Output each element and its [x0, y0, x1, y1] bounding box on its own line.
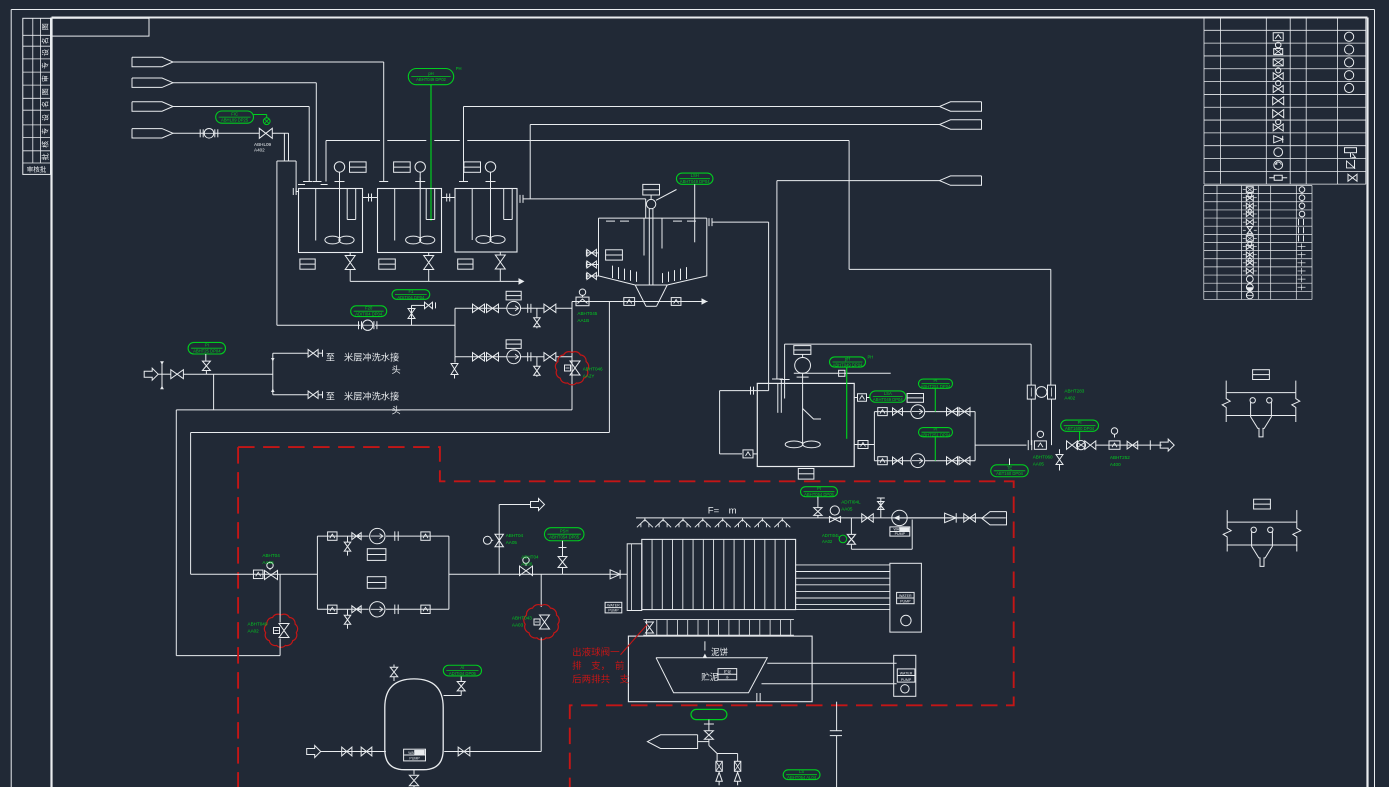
flange tick agitator [797, 376, 809, 378]
valve ABHL09 (FIC control valve) [259, 128, 272, 138]
flow indicator FI wash [363, 320, 373, 330]
svg-text:PUMP: PUMP [608, 609, 619, 613]
filter press plate stack [642, 539, 796, 609]
svg-text:ADITI04 DP04: ADITI04 DP04 [397, 295, 425, 300]
clarifier drive circle [646, 199, 655, 208]
drain valve tank T1 [349, 253, 351, 256]
wire dosing outlet [444, 751, 541, 753]
instrument pill (empty) [691, 709, 727, 719]
instrument pill PI transfer 2 [919, 428, 953, 437]
svg-text:TE: TE [1007, 465, 1013, 470]
signal wire PI 1 (green) [934, 388, 936, 411]
legend table 1 valve symbols column [1273, 33, 1283, 41]
svg-text:ADITI04 DP05: ADITI04 DP05 [449, 671, 477, 676]
drain valve below manifold [454, 357, 456, 363]
valve dosing feed 2 [361, 747, 372, 756]
title block strip (left edge) [23, 18, 51, 174]
signal stub TE [1009, 459, 1011, 465]
svg-text:ABHL09: ABHL09 [254, 142, 272, 147]
valve in cloud C3 [534, 619, 540, 625]
wire reaction tank outlet [854, 444, 874, 446]
clarifier sample valve 3 [586, 275, 598, 277]
box fitting below T1 [300, 259, 315, 269]
crossing line with arrows [161, 363, 163, 387]
mixing tank T1 with agitator M1 [299, 189, 363, 253]
vent valve assembly [411, 305, 413, 325]
svg-text:A402: A402 [1064, 396, 1075, 401]
fitting with circle on discharge [1037, 431, 1043, 437]
relief valve 1 [716, 761, 722, 771]
instrument pill TE [991, 465, 1029, 477]
valve wash branch upper [308, 349, 318, 357]
wire into tank T1 left wall [295, 161, 297, 192]
valve actuator circle (green) [263, 118, 270, 125]
valve in cloud C1 [565, 365, 571, 371]
wire spray header [636, 517, 1006, 519]
svg-text:贮泥: 贮泥 [701, 672, 719, 682]
svg-text:PI: PI [1078, 420, 1082, 425]
flange tick discharge [1027, 440, 1029, 450]
svg-text:F1: F1 [408, 289, 414, 294]
revision cloud C2 [264, 614, 297, 647]
svg-text:ABHT049 DP04: ABHT049 DP04 [873, 397, 903, 402]
inlet flag 1 [132, 57, 173, 66]
valve w/ actuator discharge [523, 557, 529, 563]
box fitting tank outlet [858, 441, 868, 449]
svg-text:图: 图 [42, 23, 50, 30]
box fitting mid 1 [367, 549, 386, 561]
wire [214, 132, 259, 134]
red diagonal leader [621, 624, 648, 655]
sludge pump branch 2 [317, 608, 368, 610]
wire wash branch upper [273, 352, 308, 354]
svg-text:图: 图 [42, 88, 50, 95]
legend table 2 symbol column [1243, 189, 1246, 191]
svg-text:pH: pH [428, 71, 433, 76]
instrument pill F20 [351, 306, 387, 317]
wire wash branch lower [273, 394, 308, 396]
wire dosing feed [321, 751, 386, 753]
svg-text:AA1B: AA1B [577, 318, 589, 323]
instrument pill pH reaction [830, 357, 866, 367]
svg-text:ABHT054 AL04: ABHT054 AL04 [787, 775, 817, 780]
clarifier hopper [635, 285, 646, 306]
wire clarifier effluent [708, 218, 710, 226]
svg-text:F20: F20 [365, 306, 373, 311]
clarifier drive diagonal [656, 190, 677, 201]
wire inlet line 1 [173, 61, 384, 63]
svg-text:专: 专 [41, 62, 50, 69]
wire outlet line B [530, 124, 939, 126]
junction wash branch 1 [571, 307, 573, 309]
wire drop to recycle line [213, 374, 215, 410]
wire hopper to unit2 lower [762, 683, 897, 685]
clarifier feedwell [643, 218, 645, 255]
svg-text:ABHT060: ABHT060 [1033, 455, 1053, 460]
svg-text:AA05: AA05 [506, 540, 518, 545]
svg-text:PI: PI [205, 343, 209, 348]
svg-text:AA02: AA02 [822, 539, 833, 544]
svg-text:ABHL09 DP25: ABHL09 DP25 [221, 117, 249, 122]
filter press label box left [605, 602, 622, 613]
sheet outer border frame [11, 9, 1374, 11]
drain valve below discharge [1059, 449, 1061, 453]
sludge skid right header [448, 536, 450, 609]
inlet arrow dosing [307, 746, 321, 758]
svg-text:AA05: AA05 [262, 560, 274, 565]
filter press frame rails [796, 564, 890, 566]
valve wash branch lower [308, 391, 318, 399]
svg-text:AA2Y: AA2Y [583, 374, 595, 379]
box fitting with circle 2 [1111, 428, 1117, 434]
outlet flag C [940, 176, 982, 185]
inlet flag wash water [144, 368, 158, 380]
drain valve below pill [704, 731, 713, 740]
svg-text:ABHT045: ABHT045 [577, 311, 597, 316]
svg-text:LS: LS [799, 769, 804, 774]
wire dosing split header [277, 160, 296, 162]
wire dosing riser lower [540, 638, 542, 752]
wire line C (dosing header) [326, 140, 380, 142]
wire inlet line 2 [173, 82, 316, 84]
left discharge arrow flag [647, 735, 697, 749]
clarifier basin [599, 218, 636, 285]
svg-text:LSA: LSA [884, 391, 892, 396]
svg-text:ABHT252: ABHT252 [1110, 455, 1130, 460]
wire dosing drop into reaction tank [784, 344, 786, 398]
signal wire FIC to valve (green) [254, 114, 267, 116]
wash water pump [892, 510, 907, 525]
dosing tank label box [404, 749, 426, 761]
svg-text:设: 设 [41, 49, 50, 56]
svg-text:pH: pH [845, 357, 850, 362]
wire line C drop to east manifold [848, 141, 850, 270]
wire underflow riser down [571, 302, 573, 410]
wire wash manifold [454, 308, 456, 357]
valve below pill [205, 354, 207, 361]
transfer pump branch 2 [874, 460, 911, 462]
instrument pill LSA [870, 391, 906, 402]
svg-text:AA06: AA06 [521, 562, 533, 567]
wire T3 outlet to clarifier feed [519, 195, 521, 203]
svg-text:AA03: AA03 [512, 623, 524, 628]
bypass valve [847, 534, 855, 544]
wire [158, 373, 171, 375]
svg-text:ABHT25 DP04: ABHT25 DP04 [193, 349, 221, 354]
arrow drain header [519, 278, 525, 285]
filter press end plate [627, 544, 642, 611]
wire outlet line to reaction tank [777, 180, 940, 182]
svg-text:头: 头 [392, 406, 401, 416]
instrument pill PI transfer 1 [919, 379, 953, 388]
sludge pump branch 1 [317, 535, 368, 537]
revision cloud C3 [524, 605, 559, 640]
arrow vent outlet [531, 499, 545, 511]
legend table 1 grid [1204, 17, 1366, 19]
wire vent riser [498, 505, 500, 575]
svg-text:ABHT046: ABHT046 [583, 367, 603, 372]
clarifier rake teeth [612, 266, 614, 278]
svg-text:AA05: AA05 [1033, 462, 1045, 467]
svg-text:ADITI04L: ADITI04L [841, 499, 861, 504]
vent stub spray [880, 498, 882, 518]
svg-text:PSH: PSH [560, 529, 569, 534]
outlet flag B [940, 120, 982, 129]
overflow connector T2-T3 [442, 197, 456, 199]
spray control valve [829, 517, 840, 523]
spray nozzles [637, 518, 653, 527]
instrument pill AI dosing [443, 665, 481, 676]
clarifier sample valve 2 [586, 264, 598, 266]
svg-text:LSH: LSH [691, 173, 699, 178]
wire below pill [708, 720, 710, 731]
svg-text:批: 批 [41, 153, 50, 160]
underflow valve w/ actuator [579, 289, 585, 295]
wire inlet line 4 to flow element [173, 132, 204, 134]
wire outlet line A [464, 106, 940, 108]
svg-text:头: 头 [392, 365, 401, 375]
rotameter right [1048, 385, 1056, 399]
wire after pump [907, 517, 985, 519]
svg-text:AA05: AA05 [841, 506, 853, 511]
wash water pump label [890, 527, 910, 536]
wire LSA tap [854, 397, 857, 399]
hex connector flag [982, 512, 1007, 525]
svg-text:ABT1600 DP04: ABT1600 DP04 [1065, 426, 1095, 431]
svg-text:PH: PH [868, 354, 874, 359]
red dashed boundary (skid limit) [238, 447, 1014, 787]
drain valve tank T3 [499, 252, 501, 255]
inlet flag 2 [132, 78, 173, 87]
svg-text:泥饼: 泥饼 [711, 647, 729, 657]
rotameter circle [1036, 387, 1047, 398]
svg-text:WATER: WATER [899, 594, 912, 598]
relief valve 2 [734, 761, 740, 771]
box fitting right of LSA [907, 394, 923, 403]
svg-text:PUMP: PUMP [895, 532, 906, 536]
svg-text:核: 核 [41, 141, 50, 148]
valve wash inlet [171, 370, 184, 379]
instrument pill PI discharge [1061, 420, 1099, 431]
signal wire LSH (white) [694, 184, 696, 242]
control valve station [1067, 441, 1078, 450]
svg-text:斗: 斗 [726, 675, 730, 680]
svg-text:ABT160 DP04: ABT160 DP04 [996, 471, 1023, 476]
mixing tank T2 with agitator M2 [378, 189, 442, 253]
box fitting underflow right [671, 298, 681, 306]
drain funnel 2 [1254, 499, 1271, 509]
wire [183, 373, 272, 375]
svg-text:至 米层冲洗水接: 至 米层冲洗水接 [326, 352, 400, 363]
svg-text:ABHT043: ABHT043 [512, 616, 532, 621]
unit2 label [897, 669, 915, 682]
svg-text:WATER: WATER [900, 672, 913, 676]
spray block valve [862, 514, 874, 522]
sludge hopper box [628, 636, 812, 702]
instrument pill LS bottom [783, 770, 820, 780]
clarifier water level ticks [606, 220, 615, 222]
bypass instrument circle (green) [839, 535, 847, 543]
box fitting below reaction tank [798, 469, 814, 480]
flange tick tank T3 top [459, 181, 468, 183]
box fitting suction [253, 570, 263, 579]
svg-text:贮泥: 贮泥 [724, 669, 732, 674]
svg-text:F= m: F= m [708, 506, 737, 517]
dosing tank side nozzle [444, 695, 462, 697]
instrument pill pH (top) [408, 69, 453, 85]
wire recycle line 2 [191, 432, 610, 434]
wash pump P1 branch [455, 307, 507, 309]
svg-text:WATER: WATER [607, 604, 620, 608]
legend table 1 right symbols column [1345, 32, 1354, 41]
filter press drip tray comb [643, 619, 794, 621]
dosing tank top valve [393, 677, 395, 682]
instrument pill PSH [544, 528, 584, 541]
valve dosing outlet [458, 747, 470, 756]
signal wire pH probe (green) [430, 85, 432, 221]
svg-text:专: 专 [41, 128, 50, 135]
svg-text:ABHT049 DP04: ABHT049 DP04 [833, 362, 863, 367]
svg-text:排 支， 前: 排 支， 前 [572, 660, 624, 672]
wire [272, 132, 288, 134]
clarifier sample valve 1 [586, 252, 598, 254]
unit2 box [894, 655, 916, 696]
dosing tank bottom drain [413, 770, 415, 775]
wire branch riser [272, 353, 274, 395]
signal wire PI 2 (green) [934, 437, 936, 461]
outlet flag A [940, 102, 982, 111]
wire wash pump feed [277, 324, 360, 326]
svg-text:PUMP: PUMP [409, 757, 420, 761]
reaction tank body [757, 383, 854, 466]
wire sludge discharge [449, 573, 627, 575]
wire transfer manifold [974, 412, 976, 461]
pH sensor box [839, 370, 845, 376]
svg-text:审核批: 审核批 [27, 165, 47, 174]
wire recycle line 1 [176, 409, 572, 411]
flange tick on effluent [750, 387, 752, 395]
break symbol on drain [830, 730, 842, 732]
wire + tick [1096, 444, 1162, 446]
svg-text:ABHT283: ABHT283 [1064, 389, 1084, 394]
transfer pump branch 1 [874, 411, 911, 413]
hydraulic unit circle [901, 615, 911, 625]
svg-text:出液球阀一: 出液球阀一 [572, 647, 620, 659]
instrument pill PI wash [188, 342, 225, 354]
instrument pill LSH clarifier [676, 173, 713, 184]
check valve after pump [945, 513, 957, 523]
svg-text:FIC: FIC [231, 112, 238, 117]
block valve after pump [964, 514, 976, 522]
svg-text:ADITI04L: ADITI04L [822, 533, 840, 538]
wire down to wash pumps [276, 161, 278, 325]
signal stub PSH [562, 541, 564, 557]
overflow connector T1-T2 [363, 197, 378, 199]
svg-text:审: 审 [41, 75, 50, 82]
valve group on suction line [191, 573, 318, 575]
reaction tank agitator motor [795, 358, 811, 374]
svg-text:ABHT04: ABHT04 [506, 533, 524, 538]
rotameter left [1027, 385, 1035, 399]
clarifier scum box [606, 250, 623, 260]
svg-text:AI: AI [460, 665, 464, 670]
svg-text:名: 名 [41, 37, 50, 44]
clarifier drive box [643, 184, 660, 195]
sheet inner border frame [52, 17, 1368, 19]
junction dosing riser [540, 574, 542, 607]
valve in cloud C2 [274, 628, 280, 634]
svg-text:ABHT054 DP05: ABHT054 DP05 [804, 492, 834, 497]
valve on vent riser [483, 536, 491, 544]
svg-text:A400: A400 [1110, 462, 1121, 467]
hydraulic unit box [890, 563, 922, 632]
box fitting LSA [858, 394, 867, 402]
clarifier shaft [648, 209, 650, 285]
svg-text:PUMP: PUMP [901, 678, 912, 682]
unit2 circle [901, 685, 909, 693]
svg-text:后两排共 支: 后两排共 支 [572, 674, 630, 686]
wire underflow second riser [608, 302, 610, 433]
svg-text:PH: PH [456, 66, 462, 71]
drain valve tank T2 [428, 253, 430, 256]
dosing tank shell [385, 679, 443, 770]
pump bypass loop [850, 518, 852, 534]
legend table 2 grid [1204, 185, 1312, 187]
comb drain valve [646, 622, 654, 633]
wire hopper to unit2 upper [767, 662, 896, 664]
wire drain collection header [350, 280, 519, 282]
flow element FI on line 4 [204, 129, 214, 139]
sludge skid left header [316, 536, 318, 609]
valve dosing feed 1 [342, 747, 352, 756]
wire hopper drain riser [836, 702, 838, 731]
svg-text:ABHT049: ABHT049 [248, 622, 268, 627]
reaction tank impeller [785, 441, 803, 448]
valve below PI spray [817, 497, 819, 508]
sludge hopper trapezoid [656, 658, 767, 693]
box fitting below T2 [379, 259, 396, 269]
svg-text:ADITI04 DP04: ADITI04 DP04 [355, 312, 383, 317]
wire clarifier underflow [572, 301, 708, 303]
instrument pill PI spray [801, 487, 838, 497]
revision cloud C1 [555, 352, 588, 385]
svg-text:ABHT049 DP04: ABHT049 DP04 [680, 179, 710, 184]
svg-text:PI: PI [817, 486, 821, 491]
svg-text:ABHT04: ABHT04 [521, 555, 539, 560]
flange tick reaction tank top [772, 378, 783, 380]
box fitting reaction tank inlet [743, 450, 753, 458]
valve discharge end [1127, 441, 1138, 449]
wire riser through cloud C2 [279, 639, 281, 656]
check valve press feed [610, 570, 620, 579]
wire [375, 324, 455, 326]
box fitting underflow left [624, 298, 635, 306]
wash pump P2 branch [455, 356, 507, 358]
level probe bracket [803, 409, 821, 420]
svg-text:设: 设 [41, 114, 50, 121]
instrument pill FIC ABHL09 [216, 111, 254, 123]
legend table 2 right marks [1299, 187, 1305, 193]
svg-text:ABHT251 DP04: ABHT251 DP04 [921, 384, 951, 389]
wire inlet line 3 [173, 106, 309, 108]
wire to relief valves [698, 741, 709, 743]
box fitting mid 2 [367, 577, 386, 589]
svg-text:AA02: AA02 [248, 629, 260, 634]
flange tick tank T2 top [379, 181, 388, 183]
instrument pill F1 [392, 290, 430, 300]
valve w/ actuator suction [267, 562, 273, 568]
hydraulic unit label [897, 592, 915, 603]
